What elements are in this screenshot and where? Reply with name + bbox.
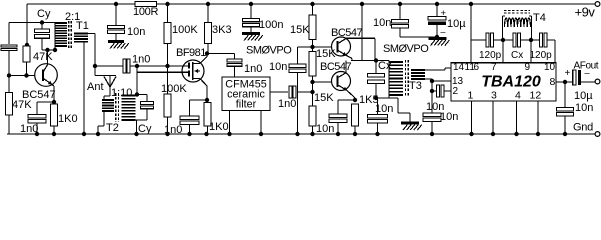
svg-text:1: 1 <box>468 90 474 102</box>
svg-text:120p: 120p <box>530 50 553 61</box>
svg-text:Cy: Cy <box>138 123 152 135</box>
svg-text:BF981: BF981 <box>176 47 206 59</box>
svg-text:1:10: 1:10 <box>111 87 132 99</box>
svg-text:2: 2 <box>453 86 459 97</box>
svg-text:100R: 100R <box>133 6 158 18</box>
svg-text:7: 7 <box>491 62 497 73</box>
svg-text:Gnd: Gnd <box>573 122 593 134</box>
svg-text:SMØVPO: SMØVPO <box>246 45 292 57</box>
svg-text:15K: 15K <box>316 48 336 60</box>
svg-text:10n: 10n <box>575 102 593 114</box>
svg-text:Ant: Ant <box>87 81 104 93</box>
svg-text:10n: 10n <box>269 61 287 73</box>
svg-text:10n: 10n <box>316 123 334 135</box>
svg-text:120p: 120p <box>479 50 502 61</box>
svg-text:10: 10 <box>544 62 556 73</box>
svg-text:1n0: 1n0 <box>278 98 296 110</box>
svg-text:BC547: BC547 <box>331 27 363 39</box>
svg-text:12: 12 <box>530 90 542 102</box>
svg-text:100n: 100n <box>259 19 283 31</box>
svg-text:10µ: 10µ <box>447 18 466 30</box>
svg-text:1n0: 1n0 <box>164 124 182 136</box>
svg-text:Cx: Cx <box>511 50 523 61</box>
svg-text:1n0: 1n0 <box>20 123 38 135</box>
svg-text:3K3: 3K3 <box>212 24 232 36</box>
svg-text:T3: T3 <box>409 80 422 92</box>
svg-text:BC547: BC547 <box>320 61 352 73</box>
svg-text:100K: 100K <box>161 83 187 95</box>
svg-text:8: 8 <box>550 76 556 88</box>
svg-text:SMØVPO: SMØVPO <box>383 43 429 55</box>
svg-text:1K0: 1K0 <box>209 121 229 133</box>
svg-text:+: + <box>565 68 571 79</box>
svg-text:9: 9 <box>525 62 531 73</box>
svg-text:AFout: AFout <box>574 61 599 72</box>
svg-text:–: – <box>441 27 446 37</box>
svg-text:+9v: +9v <box>575 5 596 20</box>
svg-text:+: + <box>441 8 447 19</box>
svg-text:14: 14 <box>453 62 465 73</box>
svg-text:6: 6 <box>474 62 480 73</box>
svg-text:T1: T1 <box>76 20 89 32</box>
svg-text:10µ: 10µ <box>574 90 593 102</box>
svg-text:100K: 100K <box>172 24 198 36</box>
svg-text:10n: 10n <box>375 103 393 115</box>
svg-text:1n0: 1n0 <box>132 54 150 66</box>
svg-text:T4: T4 <box>533 12 546 24</box>
svg-text:3: 3 <box>491 90 497 102</box>
svg-text:filter: filter <box>236 99 257 111</box>
svg-text:47K: 47K <box>33 51 53 63</box>
svg-text:TBA120: TBA120 <box>481 74 541 91</box>
svg-text:T2: T2 <box>106 122 119 134</box>
svg-text:10n: 10n <box>440 111 458 123</box>
svg-text:4: 4 <box>515 90 521 102</box>
svg-text:10n: 10n <box>127 26 145 38</box>
svg-text:15K: 15K <box>314 92 334 104</box>
svg-text:15K: 15K <box>290 24 310 36</box>
svg-text:Cy: Cy <box>37 8 51 20</box>
svg-text:1K0: 1K0 <box>58 113 78 125</box>
svg-text:10n: 10n <box>373 17 391 29</box>
svg-text:1n0: 1n0 <box>244 63 262 75</box>
svg-text:47K: 47K <box>12 99 32 111</box>
